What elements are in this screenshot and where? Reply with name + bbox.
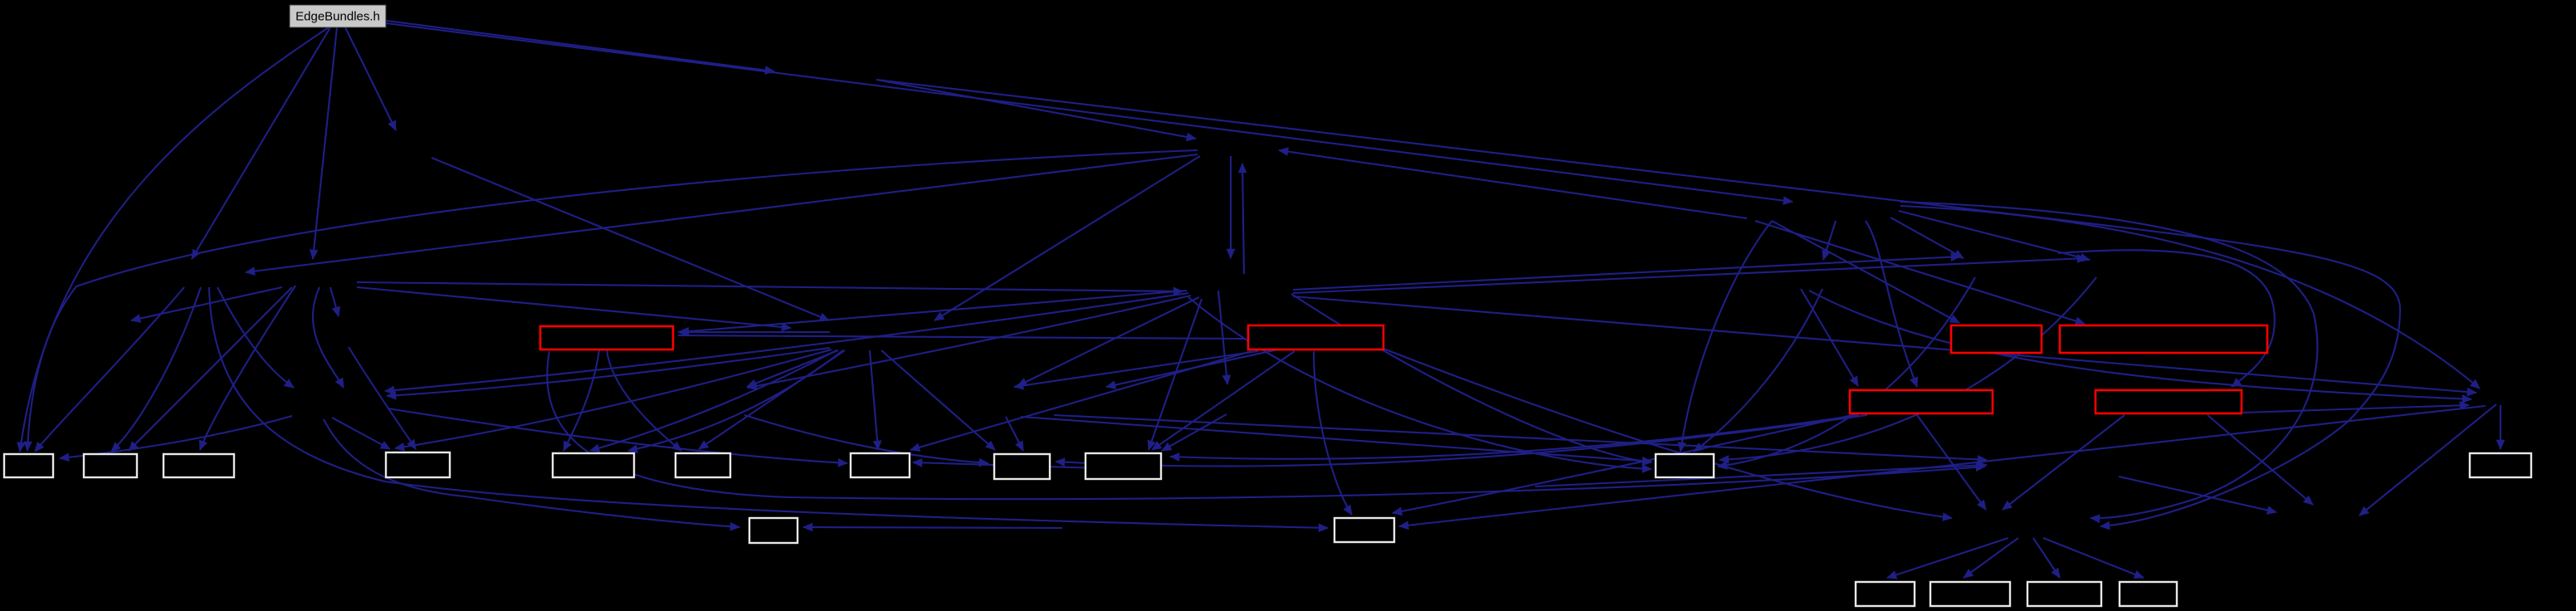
wire X4->X11 [1293, 296, 2476, 393]
wire corr->W8 [913, 462, 1154, 470]
wire X8->X9 [1891, 218, 1964, 258]
wire F->X11 [2243, 405, 2469, 413]
wire A->B6 [607, 349, 681, 451]
wire W9hub->W11a [1021, 417, 1651, 462]
node red A [540, 326, 673, 349]
node red F [2095, 390, 2242, 413]
wire X8->D [1755, 221, 2085, 324]
node red E [1850, 390, 1993, 413]
wire X13->W13 [324, 419, 739, 527]
node white W14 [1334, 518, 1394, 542]
wire X18->X11 [1809, 291, 2471, 399]
wire EdgeBundles->L2 [313, 27, 337, 259]
wire X4->X9 [1293, 257, 1960, 290]
node white B3 [163, 454, 234, 477]
wire X18->E [1801, 289, 1858, 386]
wire toX19a [1054, 415, 1987, 460]
node white W9 [994, 454, 1050, 479]
wire EdgeBundles->X8 [386, 23, 1793, 202]
wire X3->X7 [934, 156, 1200, 320]
wire B->X16b [1106, 349, 1278, 387]
wire EdgeBundles->X1 [345, 27, 396, 130]
wire X8->E [1866, 221, 1917, 387]
wire EdgeBundles->B1 [20, 27, 329, 452]
wire X8->X18 [1823, 221, 1836, 260]
wire X8->X3 [1279, 150, 1747, 218]
wire toX19c [1535, 465, 1987, 486]
wire X11->W12 [2500, 405, 2501, 449]
wire X16->W9 [1006, 417, 1023, 451]
svg-text:EdgeBundles.h: EdgeBundles.h [295, 10, 380, 24]
node white W8 [851, 453, 910, 477]
wire X7->W9 [881, 350, 995, 450]
node EdgeBundles.h [290, 5, 386, 27]
wire X8->W11 [1681, 221, 1772, 452]
wire X17->W10 [1162, 414, 1227, 451]
wire A->X19-arc [547, 351, 1985, 499]
wire X7->B5 [590, 350, 837, 451]
wire F->X12 [2003, 415, 2125, 510]
node white W10 [1086, 453, 1161, 479]
wire X3->B1-arc [27, 150, 1198, 451]
node red B [1248, 325, 1383, 349]
wire X3->X4 down [1230, 156, 1232, 258]
wire L4->B4 [349, 347, 416, 449]
wire X18->W11 [1694, 289, 1822, 452]
wire X3->X5 [246, 154, 1198, 272]
wire X6->L4 [330, 287, 339, 316]
wire X12->C1 [1887, 538, 2008, 578]
wire X8->X10 [1899, 211, 2090, 260]
wire W9hub->W11b [1188, 297, 1651, 469]
node white B1 [4, 454, 53, 477]
wire X6->X7 [357, 287, 791, 328]
wire X7->B5b [628, 350, 843, 451]
wire X5->B2 [111, 287, 201, 452]
wire X9->F-loop [2058, 250, 2275, 387]
wire X9->W11 [1718, 277, 1975, 467]
wire X10->W11 [1720, 277, 2096, 460]
wire EdgeBundles->L1 [192, 27, 330, 259]
wire E->W10 [1170, 415, 1859, 459]
wire B->W14 [1314, 351, 1352, 515]
wire X6->B2 [129, 287, 292, 451]
wire X12->C2 [1964, 538, 2018, 578]
wire X6->L3 [131, 287, 282, 320]
node white W11 [1656, 454, 1714, 477]
wire X5->B1 [35, 287, 184, 452]
wire X11->W14 [1399, 406, 2486, 526]
wire X4->X17 [1218, 291, 1227, 384]
wire X4->W10 [1149, 299, 1202, 450]
wire X11->X14 [2359, 404, 2496, 516]
wire X4->X16 [1017, 297, 1199, 386]
wire X7->W8 [870, 350, 878, 450]
wire B->X16 [1014, 351, 1258, 387]
wire X13->B1 [60, 416, 292, 458]
wire X4->A [680, 291, 1187, 332]
wire X5->W14 [209, 287, 1328, 528]
wire X15->W9 [744, 415, 988, 463]
node white W13 [749, 518, 798, 543]
wire E->X12 [1917, 415, 1986, 510]
wire loop X2->X12 [876, 80, 2400, 526]
wire E->W14 [1393, 415, 1852, 513]
wire X4->X13 [385, 293, 1188, 391]
wire X8->C [1772, 221, 1959, 323]
wire X4->X15 [748, 296, 1191, 388]
wire F->X12c [2119, 477, 2276, 512]
wire X6->B3 [200, 286, 295, 450]
wire X7->B4 [395, 349, 832, 448]
wire X7->A [678, 331, 830, 333]
wire X8->X11 [1900, 206, 2480, 389]
wire B->X12 [1383, 349, 1952, 518]
wire X6->X13 [313, 287, 344, 388]
node white C2 [1930, 582, 2010, 606]
node white C3 [2027, 582, 2101, 606]
wire X13->W8 [388, 408, 847, 463]
wire X7->X13 [387, 348, 830, 396]
wire X7->B6 [699, 350, 845, 449]
node white C4 [2120, 582, 2177, 606]
wire X5->X13 [217, 287, 294, 388]
node white B2 [84, 454, 137, 477]
wire X4->X10 [1293, 258, 2086, 293]
wire E->W9 [1056, 415, 1867, 467]
wire EdgeBundles->X2 [387, 21, 774, 71]
wire X12->C3 [2033, 538, 2060, 578]
wire X4->W11 [1291, 294, 1651, 462]
wire X2->X3 [876, 80, 1196, 139]
node white W12 [2470, 453, 2531, 477]
node red D [2060, 325, 2267, 353]
wire mid->W13 [803, 527, 1062, 528]
wire B->W8 [910, 351, 1251, 450]
wire X12->C4 [2043, 538, 2144, 578]
wire X6->X4 [357, 282, 1183, 291]
wire B->W10 [1152, 351, 1295, 450]
wire X1->X7 [432, 158, 829, 320]
wire F->X14 [2208, 415, 2313, 505]
wire X4->X3 up [1242, 164, 1244, 274]
node red C [1951, 325, 2042, 353]
wire A->B5 [563, 349, 599, 451]
wire A-右 [678, 335, 1245, 339]
node white B5 [553, 453, 634, 477]
wire X13->B4 [332, 418, 390, 449]
node white B6 [676, 453, 730, 477]
wire X7->X15 [747, 350, 838, 387]
node white B4 [386, 452, 450, 477]
wire loop2->X12 [1900, 202, 2317, 518]
node white C1 [1856, 582, 1915, 606]
